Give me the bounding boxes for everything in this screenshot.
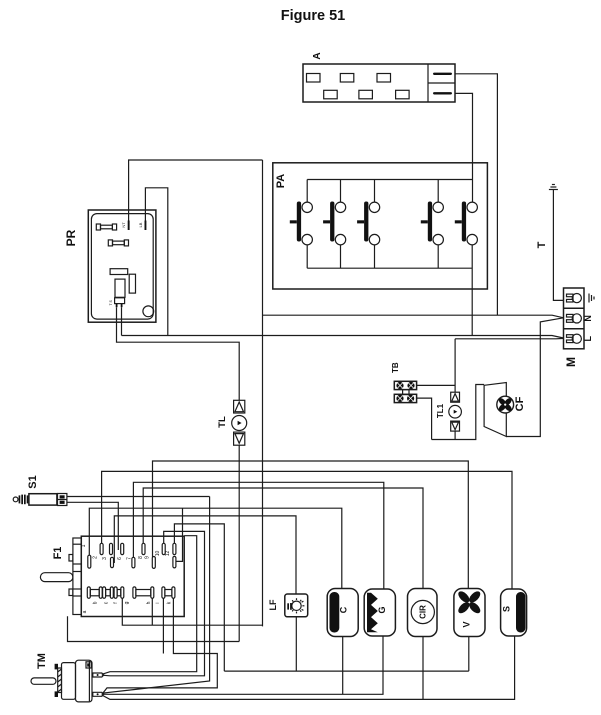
F1 pin 2 — [100, 543, 103, 554]
svg-text:S: S — [502, 606, 512, 612]
svg-text:LF: LF — [268, 599, 278, 610]
wire pin1 to element C with branch — [89, 508, 341, 588]
F1 bottom pin g — [133, 587, 136, 598]
wire C bottom to bus B — [342, 637, 344, 695]
timer TM — [31, 660, 104, 702]
circulation element CIR — [408, 589, 438, 637]
element S — [501, 589, 527, 636]
wire pin7 to grill G — [133, 482, 383, 589]
F1 pin 3 — [110, 543, 113, 554]
svg-text:12: 12 — [165, 551, 171, 557]
M cell L lug — [567, 334, 582, 343]
pushbutton PA-4 — [421, 180, 444, 269]
earth label at M — [589, 294, 594, 303]
wire TB top to TL1 vertical — [417, 384, 456, 386]
svg-text:A: A — [312, 52, 323, 59]
transformer rectangle in PR — [115, 279, 125, 297]
wire S1 top branch down to TM bottom — [102, 497, 210, 694]
svg-text:1: 1 — [81, 544, 87, 547]
svg-text:M: M — [564, 357, 578, 367]
svg-text:a: a — [82, 610, 88, 613]
svg-text:V: V — [461, 621, 471, 627]
M cell N lug — [567, 314, 582, 323]
side rectangle in PR — [129, 274, 135, 293]
svg-text:PR: PR — [64, 229, 78, 246]
svg-text:i: i — [155, 602, 161, 603]
lamp TL1 — [449, 339, 462, 440]
svg-text:h: h — [146, 601, 152, 604]
F1 bottom pin f1 — [114, 587, 117, 598]
F1 bottom pin k — [172, 587, 175, 598]
wire TL1 bottom loop to CF top — [432, 385, 485, 440]
grill element G — [364, 589, 395, 636]
F1 pin 10 — [162, 543, 165, 554]
wire pin10 to TM top — [102, 531, 205, 675]
terminal LB in PR — [145, 221, 147, 231]
svg-text:6: 6 — [117, 557, 123, 560]
F1 bottom pin a — [87, 587, 90, 598]
F1 bottom pin c1 — [103, 587, 106, 598]
indicator circle in PR — [143, 306, 154, 317]
wire N branch down to CF — [506, 318, 563, 437]
selector switch F1 body — [69, 536, 184, 616]
wire PR pin T down to TL line — [117, 307, 240, 400]
wire pin8 to CIR — [143, 488, 423, 588]
svg-text:CIR: CIR — [419, 605, 428, 619]
bus C from TM bottom to S — [102, 636, 515, 699]
svg-text:Figure 51: Figure 51 — [281, 8, 345, 24]
svg-text:T: T — [536, 241, 548, 248]
wire PR pin S down to L line — [121, 307, 123, 335]
wire F1 a to TL bottom — [68, 616, 240, 641]
wire S1 bottom lead down to pin6 — [67, 502, 118, 550]
svg-text:F1: F1 — [52, 547, 64, 560]
wire LB up right and down to L line — [145, 188, 167, 336]
svg-text:C: C — [339, 606, 349, 613]
F1 bottom pin b — [99, 587, 102, 598]
fan CF — [484, 383, 514, 437]
F1 bottom pin i — [162, 587, 165, 598]
link bar c — [106, 590, 111, 596]
wire pin i drop — [162, 598, 164, 653]
svg-text:2: 2 — [93, 556, 99, 559]
N line — [263, 315, 564, 318]
wire f-h jumper to long vertical — [122, 598, 262, 625]
F1 pin 6 — [121, 543, 124, 554]
svg-text:LB: LB — [138, 222, 143, 227]
ground symbol top right — [549, 185, 558, 190]
svg-text:7: 7 — [127, 557, 133, 560]
wire F1 top right to TM top — [102, 536, 197, 675]
wire S1 top lead — [67, 496, 210, 498]
F1 pin 3 lower slot — [111, 557, 114, 567]
terminal block M — [564, 288, 585, 349]
svg-text:10: 10 — [155, 551, 161, 557]
L line from TL1 — [455, 337, 563, 339]
svg-text:PA: PA — [275, 174, 287, 189]
wire branch to pin12 lower — [176, 508, 182, 561]
svg-text:N: N — [583, 315, 593, 322]
lamp TL — [232, 400, 247, 641]
svg-text:g: g — [124, 601, 130, 604]
heater element C — [327, 589, 358, 637]
svg-text:8: 8 — [138, 556, 144, 559]
M cell earth lug — [567, 294, 582, 303]
pushbutton PA-2 — [323, 180, 346, 269]
relay box PA — [273, 163, 488, 289]
F1 bottom pin c2 — [110, 587, 113, 598]
svg-text:3: 3 — [102, 557, 108, 560]
wire TB bottom down to CF loop — [417, 398, 432, 439]
wire NT up and across to long vertical — [129, 160, 263, 221]
fuse in PR upper — [96, 224, 116, 230]
wire pin2 to element S — [102, 471, 512, 588]
F1 pin 8 — [142, 543, 145, 554]
wire CIR bottom to bus C — [422, 637, 424, 700]
wire h drop — [151, 598, 153, 625]
wire A bottom pin down to PA switch 5 — [455, 93, 473, 202]
relay rectangle in PR — [110, 269, 128, 275]
connector at PR bottom — [109, 298, 125, 307]
svg-text:L: L — [583, 335, 593, 341]
wire ground T down to terminal block — [553, 190, 563, 301]
link bar a-b — [90, 590, 99, 596]
svg-text:b: b — [93, 601, 99, 604]
link bar g-h — [136, 590, 151, 596]
svg-text:TL: TL — [217, 416, 228, 428]
wire PA switch5 bottom down to L line — [471, 245, 473, 336]
programmer box PR — [88, 210, 156, 322]
long vertical wire from PR net down to F1 area — [262, 160, 264, 626]
wire pin12a to bus A vertical — [174, 524, 224, 671]
lamp LF — [285, 594, 308, 617]
pushbutton PA-1 — [290, 180, 313, 269]
wire pin9 to fan V — [153, 461, 469, 589]
F1 pin 1 — [88, 555, 91, 568]
terminal NT in PR — [128, 221, 130, 231]
link bar i-k — [165, 590, 172, 596]
shaft of F1 — [40, 573, 73, 582]
terminal block TB — [394, 381, 416, 402]
svg-text:TM: TM — [36, 653, 48, 669]
PA bottom bus — [307, 267, 472, 269]
wire lamp line to LF — [114, 516, 296, 594]
svg-text:9: 9 — [145, 556, 151, 559]
svg-text:CF: CF — [514, 396, 526, 411]
pushbutton PA-5 — [455, 202, 478, 245]
svg-text:TB: TB — [391, 362, 400, 373]
svg-text:NT: NT — [121, 222, 126, 228]
svg-text:S1: S1 — [27, 475, 39, 488]
F1 bottom pin f2 — [121, 587, 124, 598]
bus B from TM bottom to G — [102, 636, 383, 694]
F1 pin 7 lower slot — [132, 557, 135, 568]
pushbutton PA-3 — [357, 180, 380, 269]
bus A from pin12 vertical to V — [224, 670, 468, 672]
F1 pin 12 lower slot — [173, 556, 176, 568]
connector block A — [303, 64, 455, 102]
link bar f — [117, 590, 121, 596]
wire pin k to TM bottom loop — [102, 598, 218, 694]
fan V — [454, 589, 485, 637]
F1 pin 12 upper — [173, 543, 176, 554]
svg-text:T S: T S — [109, 299, 113, 305]
F1 pin 9 lower slot — [152, 557, 155, 569]
F1 bottom pin h — [151, 587, 154, 598]
fuse in PR lower — [108, 240, 128, 246]
probe S1 — [13, 494, 67, 506]
svg-text:G: G — [377, 606, 387, 613]
L line from PR to terminal — [122, 336, 564, 339]
wire LF bottom to bus A — [295, 617, 297, 671]
svg-text:TL1: TL1 — [436, 403, 445, 418]
wire V bottom to bus A — [468, 637, 470, 672]
PA top bus — [307, 179, 472, 181]
wire A top pin to N line — [455, 74, 497, 315]
